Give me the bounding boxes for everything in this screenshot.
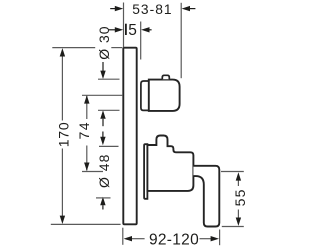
dim Ø48: top extension line [99, 145, 119, 147]
dim 170: top extension line (broken by Ø30 text) [52, 47, 95, 49]
dim 55: dimension line with arrows [237, 179, 239, 187]
dim Ø48: bottom extension line [96, 197, 111, 199]
dim Ø30: bottom extension line [98, 109, 120, 111]
svg-text:55: 55 [232, 188, 248, 206]
dim Ø30: upper arrow [102, 62, 104, 72]
svg-text:Ø 30: Ø 30 [96, 25, 112, 59]
lower centerline [82, 171, 103, 173]
svg-text:74: 74 [76, 121, 92, 140]
lower valve flange [144, 144, 147, 199]
dim Ø30: lower arrow [102, 119, 104, 126]
svg-text:92-120: 92-120 [149, 231, 199, 248]
dim 170: bottom extension line [51, 223, 121, 225]
upper valve sleeve [141, 81, 149, 110]
dim 74: dimension line with arrows [86, 96, 88, 120]
dim 15: right arrow [149, 29, 152, 31]
dim 53-81: left arrow [110, 8, 116, 10]
dim 53-81: left extension line [123, 3, 125, 48]
upper centerline [82, 94, 122, 96]
wall plate (escutcheon, side view) [123, 48, 136, 225]
dim 170: dimension line with arrows [61, 55, 63, 121]
dim Ø48: upper arrow [102, 132, 104, 138]
button on thermostat handle [162, 75, 169, 79]
svg-text:Ø 48: Ø 48 [96, 154, 112, 188]
dim 15: label [125, 24, 127, 35]
dim 55: bottom extension line [222, 226, 244, 228]
dim 92-120: dimension line with arrows [131, 238, 145, 240]
dim 53-81: right arrow [189, 8, 195, 10]
svg-text:53-81: 53-81 [132, 2, 172, 17]
dim 55: top extension line [221, 171, 244, 173]
dim 92-120: right extension line [219, 230, 221, 246]
dim 53-81: right extension line [180, 3, 182, 78]
dim 92-120: left extension line [122, 228, 124, 245]
dim Ø30: top extension line [98, 78, 120, 80]
dim 15: right extension line [140, 22, 142, 60]
thermostat handle (upper) [149, 80, 180, 111]
dim 15: left arrow [109, 29, 115, 31]
lever handle (lower) [193, 166, 219, 227]
svg-text:170: 170 [55, 122, 71, 148]
lower valve body with knob [147, 136, 193, 191]
svg-text:5: 5 [128, 22, 137, 39]
dim Ø48: lower arrow [102, 205, 104, 209]
